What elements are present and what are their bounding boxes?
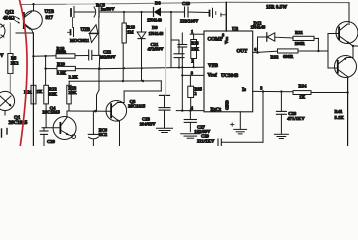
svg-text:3.3K: 3.3K: [57, 71, 67, 76]
ground (pin5): [234, 129, 247, 134]
ground (C27): [181, 134, 200, 138]
resistor R35: [188, 75, 194, 110]
svg-text:R20: R20: [57, 62, 66, 67]
wire Vcc column pin7: [225, 2, 227, 31]
svg-text:R32: R32: [271, 55, 280, 60]
capacitor C21: [171, 40, 184, 68]
wire to Vcc column: [221, 13, 227, 17]
node dots mid rail: [122, 80, 144, 83]
svg-text:Is: Is: [242, 88, 246, 93]
transistor Q4: [53, 111, 76, 140]
svg-text:R41: R41: [335, 109, 344, 114]
svg-text:Vref: Vref: [208, 74, 218, 79]
node dots on chain: [123, 11, 172, 13]
capacitor C28: [276, 92, 286, 134]
svg-text:472/50V: 472/50V: [148, 46, 165, 51]
svg-text:V: V: [0, 54, 4, 59]
capacitor C22: [89, 50, 100, 60]
svg-text:Vcc: Vcc: [224, 37, 229, 44]
wire C29 column: [262, 92, 264, 143]
pin 5 GND: [239, 112, 241, 129]
capacitor C29: [218, 139, 263, 146]
capacitor EC2: [88, 111, 98, 146]
svg-text:MOC3021: MOC3021: [70, 38, 89, 43]
transistor Q1 (edge, cut): [0, 91, 15, 115]
svg-text:104/63V: 104/63V: [140, 121, 157, 126]
node VFB junction: [98, 67, 101, 70]
diode D12: [258, 33, 294, 41]
wire R18 bottom: [122, 43, 124, 81]
svg-text:1N4148: 1N4148: [251, 25, 267, 30]
pin 6 OUT: [253, 51, 258, 53]
wire main left vertical: [32, 33, 34, 146]
top supply rail: [20, 2, 349, 4]
svg-text:GND: GND: [225, 100, 230, 110]
svg-text:1N4148: 1N4148: [149, 31, 165, 36]
svg-text:VFB: VFB: [208, 64, 219, 69]
svg-text:EC2: EC2: [99, 132, 107, 137]
svg-text:U1B: U1B: [45, 10, 55, 15]
svg-text:RtCt: RtCt: [211, 108, 222, 113]
pin 4 RtCt: [176, 110, 204, 112]
wire output: [350, 44, 358, 58]
wire Q3 emitter down: [119, 122, 121, 147]
node: [256, 51, 259, 54]
svg-text:2SC1815: 2SC1815: [42, 110, 60, 115]
wire R22 bottom to Q4 base: [42, 104, 60, 128]
transistor (lower driver): [335, 56, 357, 79]
svg-text:R34: R34: [299, 83, 308, 88]
svg-text:1M: 1M: [127, 30, 134, 35]
wire base link: [318, 34, 338, 69]
wire R23 bottom: [67, 104, 111, 111]
wire R24 bottom to VFB: [193, 59, 195, 68]
ground (C28): [274, 134, 288, 138]
wire top chain: [99, 11, 154, 13]
resistor R18: [122, 12, 126, 43]
capacitor (left rail of IC): [178, 33, 187, 111]
wire R23 top: [68, 81, 70, 85]
resistor R24: [191, 40, 197, 59]
svg-text:817: 817: [46, 16, 54, 21]
capacitor (second, near pin7): [210, 8, 216, 17]
svg-text:1: 1: [191, 29, 193, 34]
svg-text:C22: C22: [103, 49, 112, 54]
svg-text:221/1KV: 221/1KV: [197, 138, 215, 143]
capacitor RC5: [94, 7, 99, 17]
node R19 row tap: [32, 55, 34, 57]
wire Q3 base column: [98, 69, 100, 90]
svg-text:1N4148: 1N4148: [147, 18, 163, 23]
svg-text:82K: 82K: [49, 91, 58, 96]
resistor R32: [278, 49, 299, 53]
resistor R23: [67, 85, 77, 104]
wire emitter column R41: [347, 77, 349, 146]
svg-text:102/50V: 102/50V: [100, 55, 117, 60]
svg-text:R31: R31: [295, 30, 304, 35]
node output junction: [352, 45, 354, 47]
svg-text:D9: D9: [152, 25, 158, 30]
svg-text:223/100V: 223/100V: [180, 19, 199, 24]
svg-text:680R: 680R: [283, 54, 294, 59]
node C28 tap: [280, 90, 282, 92]
wire VFB long: [99, 67, 204, 69]
node: collector tap junction: [32, 3, 34, 5]
svg-text:U3: U3: [232, 27, 239, 32]
wire: [33, 4, 35, 11]
capacitor C19: [185, 7, 209, 17]
light arrows: [15, 17, 20, 24]
node: [317, 50, 319, 52]
wire R32 right: [298, 50, 318, 52]
wire column x171: [170, 12, 172, 67]
resistor R22: [44, 85, 58, 104]
edge marks bottom-left: [2, 129, 8, 138]
diode D9: [137, 12, 146, 81]
svg-text:5.1K: 5.1K: [335, 115, 345, 120]
wire: [75, 68, 99, 70]
svg-text:C19: C19: [182, 1, 191, 6]
capacitor C20: [40, 128, 48, 146]
wire C22 corner down: [98, 55, 101, 68]
resistor R21: [24, 85, 43, 104]
svg-text:330R: 330R: [56, 50, 67, 55]
svg-text:2.2K: 2.2K: [69, 75, 79, 80]
capacitor C27: [184, 111, 196, 132]
svg-text:OUT: OUT: [237, 50, 249, 55]
transistor (edge, cut): [0, 24, 5, 39]
resistor R19: [56, 54, 75, 58]
wire gray branch: [9, 23, 11, 54]
node dots on VFB wire: [123, 66, 195, 69]
capacitor C23: [159, 95, 170, 128]
wire emitter lead: [16, 29, 33, 33]
node pin8 rail: [181, 74, 183, 76]
node: [189, 109, 191, 111]
capacitor (series pair, top chain): [71, 7, 95, 18]
pin 8 Vref: [182, 74, 204, 76]
svg-text:471/1KV: 471/1KV: [287, 116, 305, 121]
svg-text:2SC1815: 2SC1815: [9, 121, 28, 126]
resistor R20: [57, 66, 75, 70]
diode D8: [154, 8, 184, 17]
plus mark: [231, 123, 235, 126]
wire Q3 collector staircase: [118, 81, 161, 103]
transistor Q3: [106, 101, 127, 122]
svg-text:Q12: Q12: [5, 11, 14, 16]
wire: [75, 55, 89, 57]
svg-text:454Ω: 454Ω: [3, 17, 15, 22]
resistor R5: [8, 54, 19, 74]
svg-text:1K: 1K: [37, 89, 43, 94]
node column tap: [44, 55, 46, 57]
wire mid rail: [69, 80, 161, 82]
resistor R31: [293, 36, 314, 40]
scan artifact vertical: [165, 28, 167, 95]
wire pin6 riser: [257, 37, 259, 52]
wire: [9, 74, 11, 94]
node R20 left tap: [44, 67, 46, 69]
svg-text:100R: 100R: [295, 41, 306, 46]
wire column x45.6: [45, 56, 47, 84]
wire R32 row: [258, 51, 278, 52]
svg-text:C20: C20: [47, 139, 56, 144]
IC U3 box: [204, 31, 253, 112]
ground (C23): [157, 128, 173, 132]
triac U2B symbol: [89, 17, 99, 55]
wire R34 right: [311, 92, 348, 94]
wire R19 row: [33, 55, 56, 58]
node: [262, 90, 264, 92]
optocoupler U2B input caps: [68, 18, 74, 37]
svg-text:COMP: COMP: [208, 38, 223, 43]
svg-text:15R 0.5W: 15R 0.5W: [266, 6, 287, 11]
transistor (upper driver): [336, 22, 358, 44]
optocoupler U1B phototransistor: [23, 11, 42, 30]
wire upper collector to rail: [348, 3, 350, 25]
wire R20 row: [46, 68, 57, 70]
svg-text:22K: 22K: [191, 46, 199, 51]
node pin4 rail: [181, 109, 183, 111]
resistor R34: [293, 91, 311, 95]
svg-text:2: 2: [194, 91, 196, 96]
svg-text:R23: R23: [191, 41, 198, 46]
red marker line: [19, 0, 27, 148]
svg-text:UC3843: UC3843: [221, 74, 239, 79]
svg-text:2K2: 2K2: [11, 61, 19, 66]
svg-text:1u/50V: 1u/50V: [101, 7, 116, 12]
pin 1 COMP: [190, 34, 204, 39]
svg-text:D8: D8: [155, 1, 161, 6]
wire R31 right: [314, 38, 318, 51]
svg-text:22K: 22K: [68, 90, 77, 95]
node: [94, 110, 97, 113]
svg-text:2SC1815: 2SC1815: [128, 104, 146, 109]
svg-text:U2B: U2B: [81, 28, 91, 33]
svg-text:R18: R18: [127, 24, 136, 29]
svg-text:1K: 1K: [299, 95, 305, 100]
pin 3 Is: [253, 90, 293, 92]
